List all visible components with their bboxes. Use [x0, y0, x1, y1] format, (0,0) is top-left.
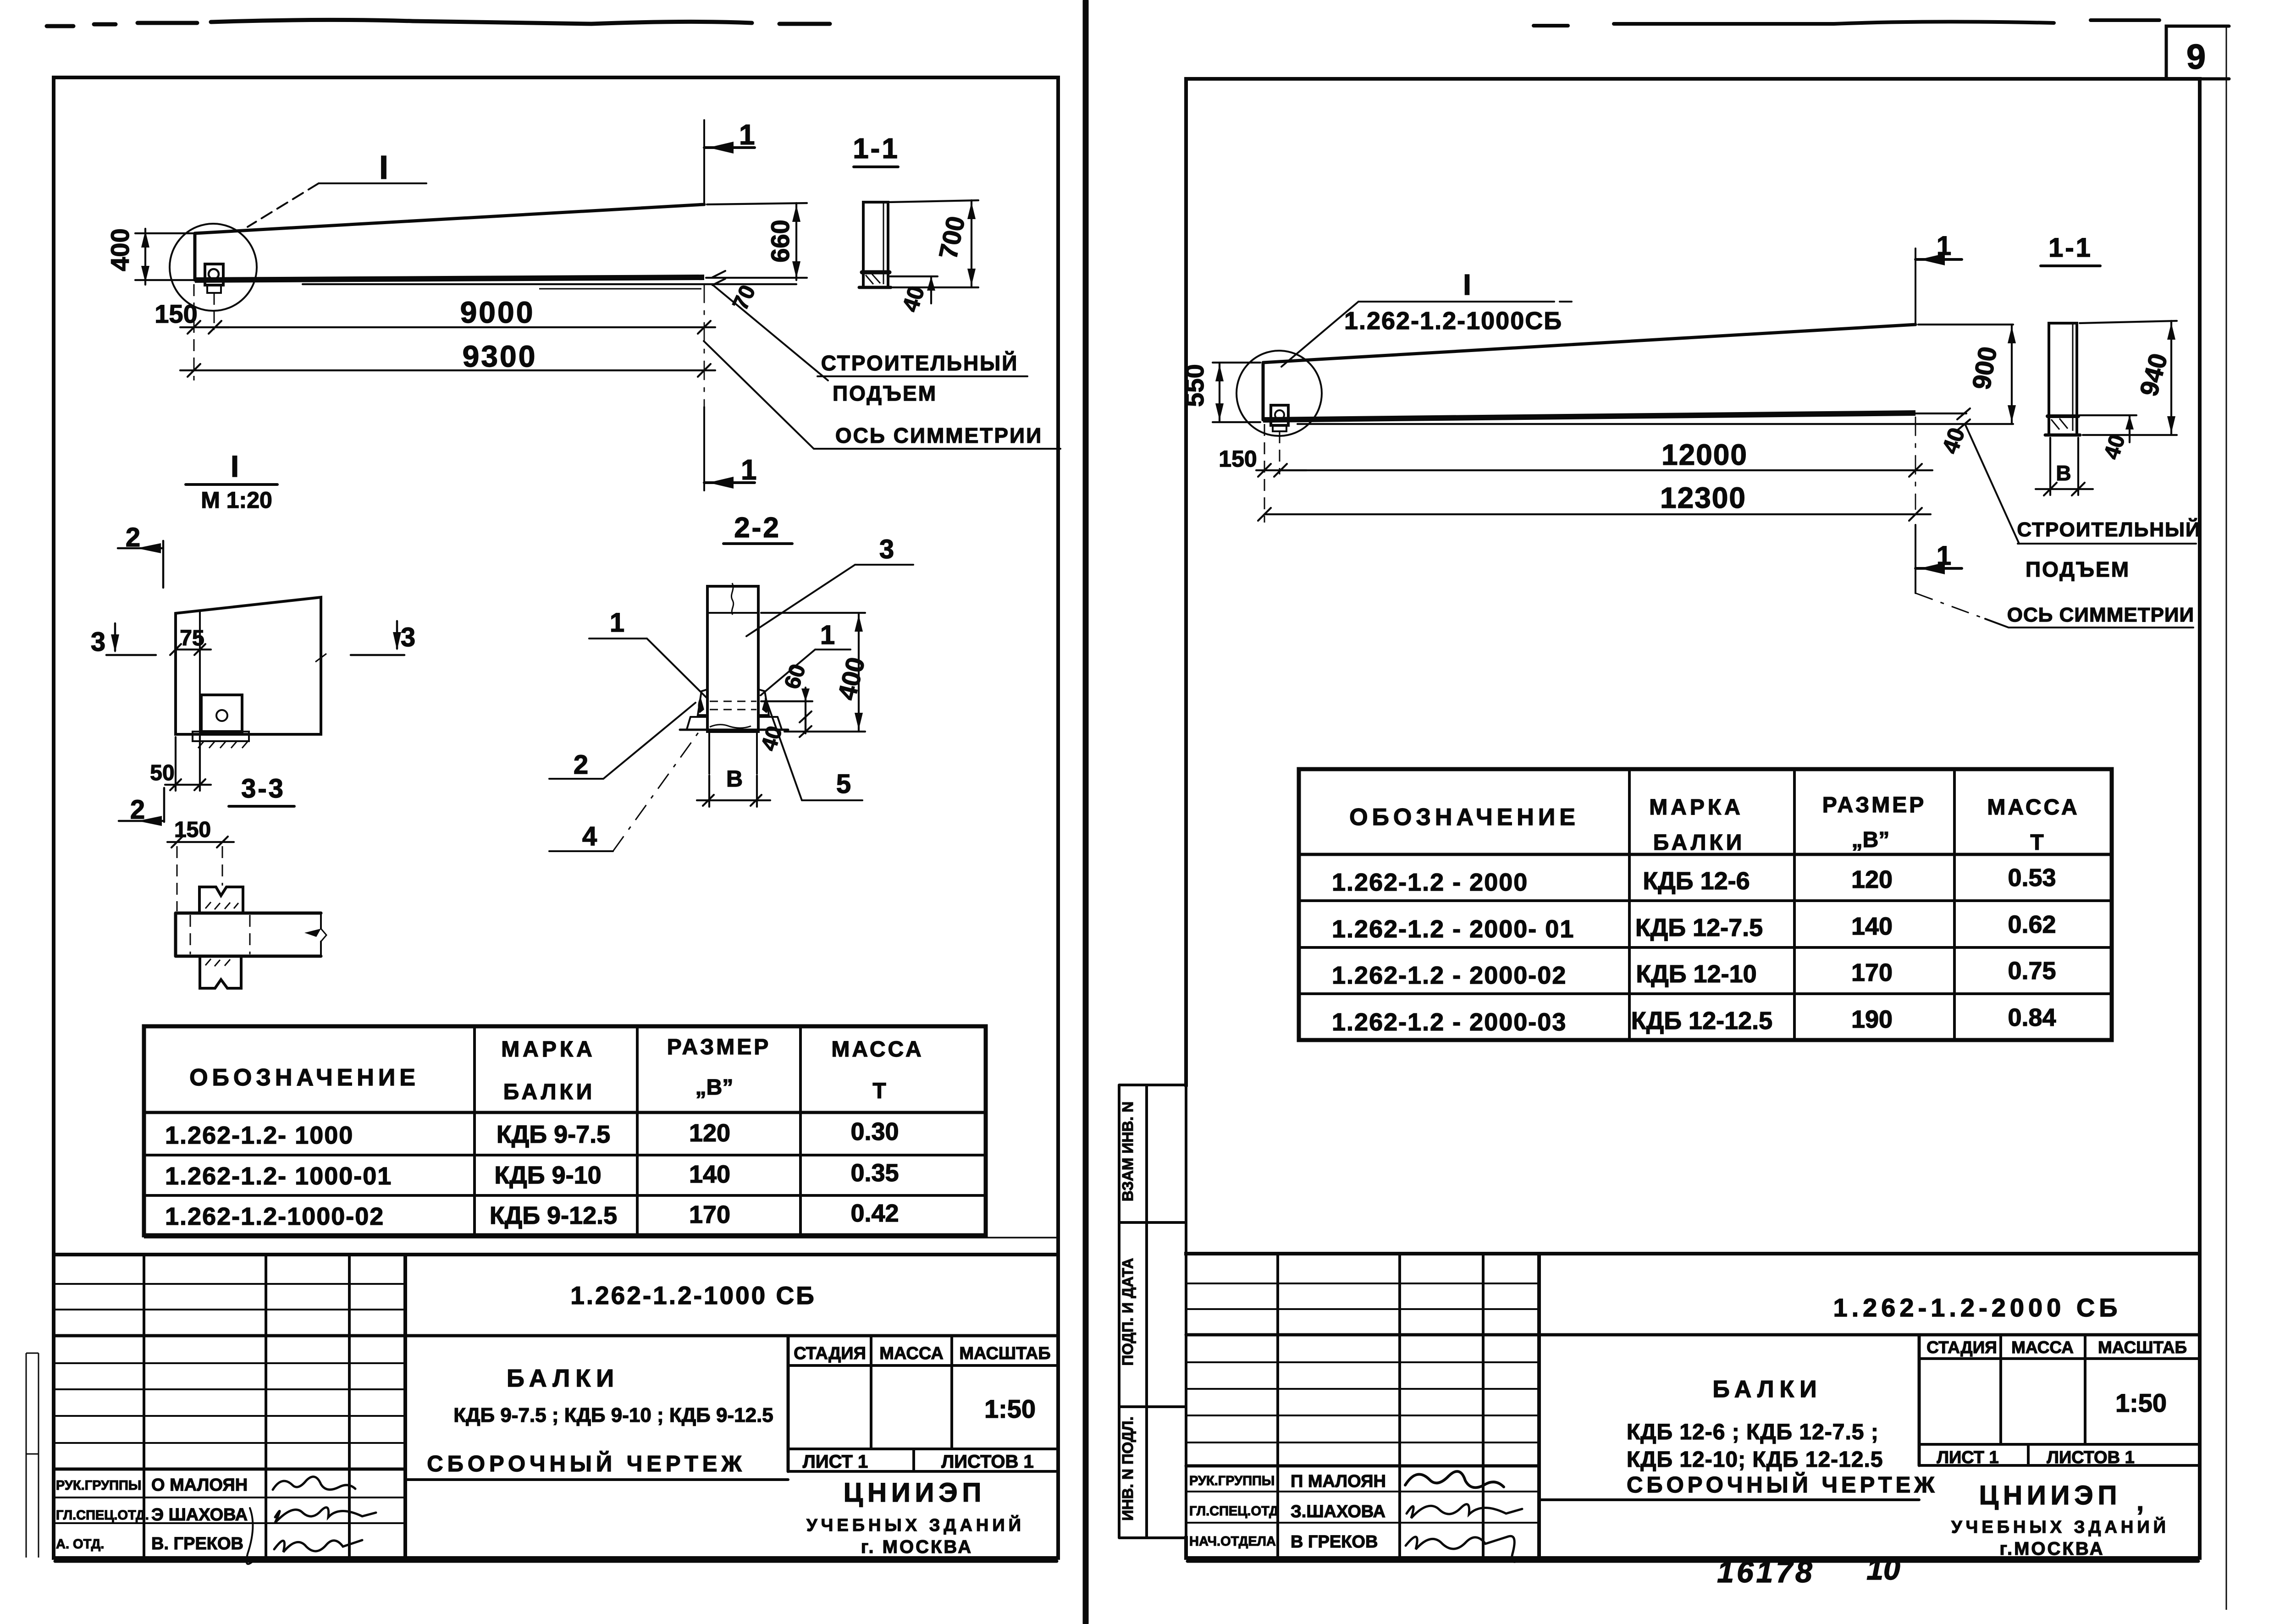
svg-text:1.262-1.2 - 2000- 01: 1.262-1.2 - 2000- 01	[1332, 915, 1574, 943]
svg-text:3-3: 3-3	[241, 774, 285, 804]
svg-text:75: 75	[180, 626, 204, 650]
svg-text:1: 1	[1937, 231, 1951, 261]
svg-text:3: 3	[91, 627, 105, 657]
svg-text:ЦНИИЭП: ЦНИИЭП	[844, 1478, 986, 1508]
break tick on right edge	[315, 654, 326, 662]
svg-text:140: 140	[1851, 913, 1893, 940]
svg-text:I: I	[231, 449, 239, 483]
left title block outline	[54, 1253, 1058, 1256]
detail I beam end outline	[176, 597, 321, 734]
svg-text:3: 3	[401, 622, 415, 652]
right page drawing frame	[1187, 1560, 2198, 1563]
2-2 left angle	[698, 689, 707, 715]
svg-text:140: 140	[689, 1161, 730, 1188]
СТРОИТЕЛЬНЫЙ ПОДЪЕМ (right)	[1965, 424, 2196, 544]
dimension 12300	[1264, 424, 1265, 523]
torn paper edge top-right	[1534, 20, 2159, 26]
dimension 660 (mid height)	[706, 203, 807, 278]
svg-text:Т: Т	[872, 1079, 886, 1103]
svg-text:ЛИСТОВ 1: ЛИСТОВ 1	[2047, 1448, 2134, 1467]
svg-text:КДБ 9-7.5 ; КДБ 9-10 ; КДБ 9-1: КДБ 9-7.5 ; КДБ 9-10 ; КДБ 9-12.5	[453, 1404, 773, 1426]
dimension 40 (2-2)	[805, 717, 806, 733]
left title block: separator line above	[144, 1237, 1058, 1239]
svg-text:ВЗАМ ИНВ. N: ВЗАМ ИНВ. N	[1119, 1101, 1136, 1201]
svg-text:1: 1	[820, 620, 835, 650]
dimension 400 (2-2)	[761, 613, 865, 732]
svg-text:12300: 12300	[1660, 481, 1746, 514]
svg-text:РУК.ГРУППЫ: РУК.ГРУППЫ	[1189, 1474, 1275, 1488]
svg-text:КДБ 12-7.5: КДБ 12-7.5	[1635, 914, 1763, 941]
left beam elevation: left end edge	[193, 233, 197, 280]
svg-text:2-2: 2-2	[734, 512, 781, 544]
svg-text:1.262-1.2-1000 СБ: 1.262-1.2-1000 СБ	[570, 1281, 816, 1310]
left beam: detail circle I	[170, 224, 257, 311]
svg-text:МАССА: МАССА	[1987, 795, 2079, 820]
svg-text:1.262-1.2- 1000-01: 1.262-1.2- 1000-01	[165, 1162, 392, 1190]
svg-text:МАССА: МАССА	[879, 1344, 944, 1363]
dimension 9000	[215, 326, 715, 328]
svg-text:0.84: 0.84	[2008, 1004, 2056, 1031]
right title block outline	[1186, 1252, 2200, 1255]
right signature grid verticals	[1278, 1254, 1483, 1558]
svg-text:ОБОЗНАЧЕНИЕ: ОБОЗНАЧЕНИЕ	[189, 1064, 419, 1091]
dimension 40 (flange)	[890, 276, 938, 303]
right beam elevation: bottom edge (thick)	[1263, 413, 1915, 420]
dimension В (right)	[2050, 438, 2078, 495]
right beam elevation: top edge	[1263, 325, 1915, 363]
svg-text:1.262-1.2 - 2000-03: 1.262-1.2 - 2000-03	[1332, 1008, 1567, 1036]
2-2 hidden plate lines	[710, 701, 756, 710]
right beam: detail circle	[1236, 351, 1322, 436]
svg-text:В ГРЕКОВ: В ГРЕКОВ	[1291, 1532, 1378, 1552]
svg-text:БАЛКИ: БАЛКИ	[1653, 831, 1745, 855]
svg-text:П МАЛОЯН: П МАЛОЯН	[1291, 1472, 1386, 1491]
svg-text:МАССА: МАССА	[831, 1037, 923, 1062]
left beam: support axis dashed	[214, 293, 215, 330]
left page drawing frame	[55, 1560, 1057, 1563]
dimension 550	[1213, 363, 1260, 422]
svg-text:190: 190	[1851, 1006, 1893, 1033]
left beam elevation: straight chord reference line	[303, 283, 796, 285]
svg-text:г.МОСКВА: г.МОСКВА	[1999, 1539, 2104, 1559]
dimension 400 (left end height)	[135, 233, 195, 280]
svg-text:1.262-1.2-1000СБ: 1.262-1.2-1000СБ	[1344, 307, 1562, 335]
svg-text:3: 3	[879, 534, 894, 564]
svg-text:10: 10	[1866, 1552, 1900, 1586]
3-3 hidden lines	[190, 915, 250, 954]
right beam: straight chord reference line	[1297, 423, 1964, 425]
detail I anchor plate	[201, 695, 242, 732]
svg-text:БАЛКИ: БАЛКИ	[1712, 1376, 1822, 1403]
svg-text:РАЗМЕР: РАЗМЕР	[667, 1035, 771, 1059]
svg-text:0.30: 0.30	[850, 1118, 899, 1145]
svg-text:О МАЛОЯН: О МАЛОЯН	[151, 1475, 248, 1495]
svg-text:1.262-1.2-1000-02: 1.262-1.2-1000-02	[165, 1203, 384, 1230]
svg-text:0.62: 0.62	[2008, 911, 2056, 938]
svg-text:1.262-1.2 - 2000-02: 1.262-1.2 - 2000-02	[1332, 962, 1567, 989]
svg-text:МАРКА: МАРКА	[1649, 795, 1744, 820]
dimension 9300	[193, 284, 195, 380]
svg-text:КДБ 12-10: КДБ 12-10	[1636, 960, 1756, 988]
dimension 70 (camber at mid)	[712, 271, 725, 285]
svg-text:„В”: „В”	[1852, 828, 1890, 852]
svg-text:„В”: „В”	[695, 1075, 734, 1100]
svg-text:З.ШАХОВА: З.ШАХОВА	[1291, 1502, 1385, 1521]
label ОСЬ СИММЕТРИИ with leader	[704, 341, 1060, 449]
svg-text:9: 9	[2186, 38, 2206, 77]
svg-text:РУК.ГРУППЫ: РУК.ГРУППЫ	[56, 1478, 141, 1493]
svg-text:1-1: 1-1	[2048, 233, 2092, 263]
svg-text:Т: Т	[2030, 831, 2043, 855]
svg-text:12000: 12000	[1661, 438, 1748, 471]
svg-text:МАСШТАБ: МАСШТАБ	[2098, 1338, 2187, 1357]
misc scan marks	[539, 288, 701, 290]
svg-text:ЛИСТ 1: ЛИСТ 1	[1937, 1448, 1998, 1467]
dimension 940	[2080, 321, 2177, 435]
svg-text:ОБОЗНАЧЕНИЕ: ОБОЗНАЧЕНИЕ	[1349, 804, 1579, 831]
right section line 1 top	[1915, 248, 1916, 325]
svg-text:150: 150	[155, 299, 197, 328]
svg-text:ГЛ.СПЕЦ.ОТД.: ГЛ.СПЕЦ.ОТД.	[56, 1508, 149, 1523]
svg-text:СТРОИТЕЛЬНЫЙ: СТРОИТЕЛЬНЫЙ	[2017, 517, 2201, 541]
svg-text:0.42: 0.42	[850, 1200, 899, 1227]
svg-text:0.75: 0.75	[2008, 957, 2056, 985]
2-2 break squiggle	[731, 583, 733, 615]
svg-text:1: 1	[1937, 541, 1951, 571]
right signature grid horizontals	[1186, 1283, 1539, 1523]
3-3 bottom plate with notch	[200, 958, 241, 988]
2-2 right angle	[758, 689, 769, 715]
svg-text:СТАДИЯ: СТАДИЯ	[1926, 1338, 1997, 1357]
right 1-1 web outline	[2049, 323, 2077, 435]
svg-text:В. ГРЕКОВ: В. ГРЕКОВ	[151, 1534, 243, 1553]
svg-text:1-1: 1-1	[853, 133, 900, 165]
svg-text:120: 120	[689, 1119, 730, 1147]
svg-text:УЧЕБНЫХ ЗДАНИЙ: УЧЕБНЫХ ЗДАНИЙ	[806, 1514, 1025, 1535]
svg-text:МАРКА: МАРКА	[501, 1037, 596, 1062]
svg-text:ЛИСТОВ 1: ЛИСТОВ 1	[941, 1452, 1034, 1472]
svg-text:ОСЬ СИММЕТРИИ: ОСЬ СИММЕТРИИ	[835, 424, 1043, 447]
left title block: signature grid horizontals	[54, 1284, 405, 1523]
svg-text:КДБ 9-7.5: КДБ 9-7.5	[497, 1121, 610, 1148]
svg-text:КДБ 9-10: КДБ 9-10	[494, 1162, 601, 1189]
svg-text:ЛИСТ 1: ЛИСТ 1	[803, 1452, 868, 1472]
svg-text:ПОДП. И ДАТА: ПОДП. И ДАТА	[1119, 1258, 1136, 1365]
stamp boxes ВЗАМ/ПОДП/ИНВ	[1119, 1085, 1186, 1538]
2-2 web below joint	[709, 732, 757, 774]
section line 1 bottom	[704, 284, 705, 407]
svg-text:1.262-1.2- 1000: 1.262-1.2- 1000	[165, 1122, 353, 1149]
svg-text:170: 170	[689, 1201, 730, 1228]
svg-text:МАССА: МАССА	[2011, 1338, 2074, 1357]
right beam elevation: left end edge	[1262, 363, 1265, 420]
svg-text:ОСЬ СИММЕТРИИ: ОСЬ СИММЕТРИИ	[2007, 604, 2194, 626]
book spine divider bar	[1083, 1, 1089, 1623]
detail I bearing pad	[193, 732, 249, 741]
svg-text:1.262-1.2-2000 СБ: 1.262-1.2-2000 СБ	[1833, 1293, 2121, 1322]
svg-text:РАЗМЕР: РАЗМЕР	[1822, 793, 1926, 817]
svg-text:1:50: 1:50	[984, 1394, 1036, 1423]
svg-text:1: 1	[610, 608, 624, 638]
dimension 40 (camber right)	[1957, 408, 1970, 430]
left mini table СТАДИЯ/МАССА/МАСШТАБ	[405, 1336, 1058, 1480]
svg-text:400: 400	[105, 228, 134, 271]
svg-text:СТАДИЯ: СТАДИЯ	[794, 1344, 866, 1363]
svg-text:В: В	[726, 766, 743, 792]
section line 1 top	[703, 120, 705, 204]
svg-text:ГЛ.СПЕЦ.ОТД: ГЛ.СПЕЦ.ОТД	[1189, 1504, 1279, 1519]
left beam elevation: top edge	[195, 204, 704, 233]
section 1-1 bottom flange	[862, 270, 889, 275]
svg-text:БАЛКИ: БАЛКИ	[503, 1080, 595, 1104]
svg-text:ИНВ. N ПОДЛ.: ИНВ. N ПОДЛ.	[1119, 1416, 1136, 1521]
svg-text:г. МОСКВА: г. МОСКВА	[861, 1537, 973, 1557]
left specification table frame	[144, 1026, 986, 1235]
svg-text:МАСШТАБ: МАСШТАБ	[959, 1344, 1050, 1363]
svg-text:9000: 9000	[460, 295, 535, 329]
3-3 top plate with notch	[199, 887, 243, 913]
svg-text:Э ШАХОВА: Э ШАХОВА	[151, 1505, 248, 1525]
svg-text:I: I	[1463, 268, 1471, 301]
svg-text:50: 50	[150, 761, 174, 785]
dimension 12000	[1281, 469, 1932, 471]
svg-text:0.53: 0.53	[2008, 864, 2056, 892]
dimension 60	[761, 688, 812, 732]
dimension 700	[890, 200, 978, 287]
svg-text:НАЧ.ОТДЕЛА: НАЧ.ОТДЕЛА	[1189, 1534, 1276, 1549]
right section line 1 bottom	[1915, 525, 1916, 593]
svg-text:550: 550	[1180, 364, 1209, 407]
svg-text:9300: 9300	[463, 339, 537, 373]
svg-text:ПОДЪЕМ: ПОДЪЕМ	[833, 381, 937, 405]
2-2 web outline	[707, 586, 758, 732]
svg-text:КДБ 12-6: КДБ 12-6	[1643, 867, 1750, 895]
left page partial stamp boxes at left edge	[26, 1353, 39, 1558]
dimension 40 (right flange)	[2080, 415, 2136, 442]
right 1-1 bottom flange	[2048, 414, 2078, 418]
torn paper edge top-left	[47, 20, 830, 26]
svg-text:120: 120	[1851, 866, 1893, 893]
dimension В (2-2)	[709, 776, 757, 807]
svg-text:КДБ 12-6 ; КДБ 12-7.5 ;: КДБ 12-6 ; КДБ 12-7.5 ;	[1627, 1420, 1879, 1444]
right mini table	[1539, 1335, 2200, 1500]
3-3 bottom flange bar	[176, 913, 321, 956]
svg-text:1: 1	[741, 454, 756, 486]
svg-text:СБОРОЧНЫЙ ЧЕРТЕЖ: СБОРОЧНЫЙ ЧЕРТЕЖ	[1627, 1472, 1938, 1497]
svg-text:0.35: 0.35	[850, 1159, 899, 1187]
svg-text:,: ,	[2136, 1486, 2144, 1516]
label СТРОИТЕЛЬНЫЙ ПОДЪЕМ with leader	[712, 285, 1027, 380]
sheet number box 9	[2166, 26, 2229, 79]
svg-text:ЦНИИЭП: ЦНИИЭП	[1979, 1481, 2122, 1510]
left beam elevation: bottom edge (thick)	[195, 277, 704, 280]
svg-text:1:50: 1:50	[2115, 1388, 2167, 1417]
svg-text:170: 170	[1851, 959, 1893, 986]
svg-text:1: 1	[739, 119, 755, 151]
svg-text:А. ОТД.: А. ОТД.	[56, 1537, 104, 1552]
svg-text:УЧЕБНЫХ ЗДАНИЙ: УЧЕБНЫХ ЗДАНИЙ	[1951, 1516, 2169, 1537]
right page outer sheet edge	[2226, 25, 2227, 1610]
right description divider	[1918, 1335, 1921, 1465]
svg-text:I: I	[379, 149, 388, 186]
svg-text:СТРОИТЕЛЬНЫЙ: СТРОИТЕЛЬНЫЙ	[821, 351, 1019, 375]
svg-text:М 1:20: М 1:20	[201, 487, 272, 513]
svg-text:16178: 16178	[1717, 1555, 1815, 1589]
svg-text:КДБ 9-12.5: КДБ 9-12.5	[490, 1202, 617, 1229]
svg-text:5: 5	[836, 769, 851, 799]
section 1-1 web outline	[863, 202, 888, 287]
svg-text:БАЛКИ: БАЛКИ	[507, 1365, 619, 1392]
svg-text:660: 660	[766, 220, 795, 262]
svg-text:1.262-1.2 - 2000: 1.262-1.2 - 2000	[1332, 869, 1528, 896]
svg-text:4: 4	[582, 821, 597, 851]
ОСЬ СИММЕТРИИ (right)	[1915, 593, 1985, 619]
svg-text:КДБ 12-12.5: КДБ 12-12.5	[1631, 1007, 1772, 1035]
right beam: lifting plate	[1271, 405, 1288, 425]
dimension 900	[1915, 325, 2013, 424]
left title block: signature grid verticals	[144, 1255, 349, 1558]
right section line mid	[1915, 417, 1916, 509]
svg-text:СБОРОЧНЫЙ ЧЕРТЕЖ: СБОРОЧНЫЙ ЧЕРТЕЖ	[427, 1451, 746, 1476]
svg-text:2: 2	[574, 750, 588, 780]
svg-text:ПОДЪЕМ: ПОДЪЕМ	[2026, 557, 2130, 581]
right specification table frame	[1299, 769, 2112, 1040]
svg-text:150: 150	[1219, 446, 1257, 472]
svg-text:КДБ 12-10; КДБ 12-12.5: КДБ 12-10; КДБ 12-12.5	[1627, 1448, 1883, 1472]
right signatures (handwritten)	[1405, 1471, 1504, 1487]
left signatures (handwritten)	[273, 1477, 355, 1490]
2-2 bottom plate	[687, 717, 782, 729]
left beam: lifting plate	[205, 264, 223, 285]
svg-text:В: В	[2056, 461, 2071, 485]
left title block: description area divider	[787, 1336, 790, 1471]
